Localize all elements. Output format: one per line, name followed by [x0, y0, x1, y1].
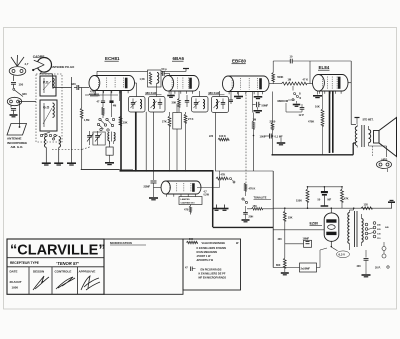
oscillator coil L2	[108, 132, 115, 145]
power transformer T4	[348, 208, 363, 250]
resistor 15K osc	[119, 117, 128, 126]
resistor 27K b	[184, 112, 194, 171]
title CLARVILLE	[7, 243, 106, 259]
svg-text:400: 400	[278, 238, 283, 241]
title headers	[10, 270, 96, 274]
tube 6BA6	[163, 56, 200, 94]
wire	[136, 91, 138, 97]
svg-text:CONTROLE: CONTROLE	[55, 270, 72, 274]
capacitor 330 grid	[71, 82, 89, 90]
svg-text:4,7: 4,7	[25, 62, 29, 66]
svg-text:28 AOUT: 28 AOUT	[10, 280, 22, 284]
switch grave-aigu	[292, 93, 302, 107]
capacitor 12 P	[286, 103, 304, 117]
svg-text:•POINT 1 W: •POINT 1 W	[197, 254, 212, 258]
switch tone	[230, 178, 236, 184]
capacitor grid osc	[109, 100, 116, 117]
svg-text:800: 800	[276, 263, 281, 267]
resistor 47K tone	[216, 173, 228, 180]
capacitor 50p	[161, 67, 170, 76]
wire grid top run	[97, 71, 186, 75]
chassis stub above 6BA6	[183, 69, 189, 72]
band switch contacts	[40, 132, 56, 137]
resistor 470K el84	[308, 91, 324, 155]
resistor 15K ps	[283, 208, 292, 258]
ground	[67, 163, 76, 165]
antenna socket J2	[7, 97, 21, 105]
label 220	[209, 135, 214, 138]
wire volume line	[253, 134, 255, 172]
svg-text:1M: 1M	[288, 78, 292, 82]
svg-text:500K: 500K	[277, 75, 283, 79]
frame aerial loop CADRE	[32, 58, 51, 73]
wire	[156, 83, 158, 97]
svg-text:MEDIUM: MEDIUM	[278, 99, 289, 103]
label MEDIUM	[278, 99, 296, 103]
output transformer T3	[355, 125, 370, 148]
oscillator feedback coil box	[140, 70, 162, 87]
label STD MET	[355, 118, 374, 125]
svg-text:480 KHZ: 480 KHZ	[208, 91, 220, 95]
wire	[10, 106, 12, 108]
tuning indicator tube	[154, 181, 202, 197]
title row recepteur	[7, 261, 104, 267]
wire	[71, 77, 73, 163]
legend line7	[199, 272, 226, 276]
capacitor 2x50MF	[285, 248, 327, 272]
svg-text:CADRAN 6V3: CADRAN 6V3	[181, 201, 196, 204]
resistor 2,2K	[102, 107, 105, 118]
wire B+ rail	[273, 207, 392, 209]
resistor 30K	[172, 91, 181, 112]
wire	[13, 75, 15, 81]
svg-text:1,5M: 1,5M	[84, 119, 90, 122]
potentiometer TONALITE	[242, 196, 271, 204]
capacitor 47	[97, 100, 106, 108]
wire heater run	[213, 226, 274, 228]
legend line8	[199, 276, 227, 280]
oscillator coil L1	[44, 135, 60, 147]
ground bus heavy	[120, 170, 214, 172]
resistor 150 tone	[247, 205, 273, 210]
voltage selector	[365, 222, 389, 240]
legend line3	[197, 250, 218, 254]
label 480 KHZ second IF	[208, 91, 225, 95]
wire	[145, 112, 147, 171]
coil GO box	[40, 100, 57, 131]
resistor 470	[85, 90, 118, 97]
wire plate EL84 to OPT	[348, 61, 356, 125]
label EZ80	[310, 222, 323, 226]
switch S1 antenna	[13, 88, 27, 96]
svg-text:MODIFICATION: MODIFICATION	[110, 241, 132, 245]
wire to EZ80 heater	[273, 229, 324, 231]
svg-text:400: 400	[357, 265, 362, 268]
svg-text:K EN MILLIERS DE PF: K EN MILLIERS DE PF	[199, 272, 226, 276]
ground bus thin	[81, 169, 133, 171]
label CADRE	[33, 55, 46, 59]
svg-text:MF: MF	[328, 199, 332, 202]
svg-text:1,5K: 1,5K	[140, 78, 145, 81]
svg-text:0,1 MF: 0,1 MF	[275, 135, 283, 139]
IF transformer T2 secondary	[212, 97, 229, 113]
chassis T right	[388, 200, 395, 208]
svg-text:12 P: 12 P	[299, 113, 305, 117]
svg-text:50MF: 50MF	[262, 104, 269, 108]
wire cadre to grid line	[40, 72, 72, 88]
wire	[219, 91, 221, 97]
svg-text:EZ80: EZ80	[310, 222, 319, 226]
wire detector dashed	[245, 92, 247, 191]
svg-text:47K: 47K	[344, 197, 349, 201]
svg-text:4M: 4M	[113, 105, 116, 108]
speaker plug HPS	[377, 161, 392, 173]
svg-text:ΔPOINTS 2 W: ΔPOINTS 2 W	[197, 258, 214, 262]
capacitor 20H	[242, 206, 254, 222]
svg-text:16MF: 16MF	[303, 236, 310, 240]
signature dessin	[33, 276, 49, 290]
resistor box padder	[106, 141, 113, 162]
ground EL84 cathode	[313, 91, 322, 98]
svg-text:1956: 1956	[12, 286, 19, 290]
ground	[42, 163, 51, 165]
shield box dashed	[36, 74, 62, 142]
potentiometer 1M volume	[282, 78, 307, 91]
rectifier tube EZ80	[324, 213, 339, 241]
wire heavy heater 6ba6	[135, 112, 137, 171]
grid capacitor 100	[229, 92, 233, 105]
svg-text:20H: 20H	[249, 215, 254, 219]
wire	[252, 92, 254, 113]
resistor 2200	[270, 92, 276, 155]
tube EBF80	[223, 59, 269, 95]
wire plate EBF80	[269, 83, 282, 85]
svg-text:RECEPTEUR TYPE: RECEPTEUR TYPE	[10, 261, 39, 265]
junction dots	[120, 135, 354, 248]
svg-text:470K: 470K	[308, 119, 314, 123]
title date	[10, 280, 22, 290]
svg-text:6BA6: 6BA6	[173, 56, 185, 61]
svg-text:LAMPES: LAMPES	[181, 198, 191, 201]
feedback capacitor 10	[273, 55, 351, 64]
svg-text:ANTENNE: ANTENNE	[7, 136, 22, 140]
tube ECH81	[89, 56, 135, 93]
wire vertical feed	[273, 171, 285, 268]
wire socket to box	[18, 101, 36, 103]
wire	[45, 148, 47, 163]
capacitor filter	[357, 250, 371, 277]
svg-text:AM. G.O.: AM. G.O.	[11, 145, 24, 149]
capacitor 0,1MF	[264, 134, 283, 139]
title block frame	[7, 239, 104, 294]
electrolytic box	[173, 104, 182, 171]
tube EL84	[313, 65, 348, 94]
wire heavy heater b	[332, 91, 334, 153]
gang dashed link	[52, 147, 91, 150]
wire grid left	[81, 88, 120, 170]
dial lamp box	[179, 197, 202, 205]
svg-text:470: 470	[90, 90, 95, 94]
label 480 KHZ first IF	[145, 91, 162, 95]
wire	[199, 91, 201, 97]
svg-text:47K: 47K	[221, 173, 226, 177]
signature approuve	[81, 276, 100, 290]
signature controle	[56, 277, 75, 289]
label 4,7 0,5W	[204, 191, 210, 197]
resistor 470 lamp	[184, 205, 192, 215]
resistor 100K	[218, 134, 229, 141]
svg-text:27 K: 27 K	[188, 117, 194, 121]
svg-text:10K: 10K	[315, 105, 320, 109]
svg-text:330: 330	[71, 82, 76, 86]
label HPS	[382, 158, 388, 162]
oscillator tuning box	[93, 132, 105, 145]
svg-text:“CLARVILLE”: “CLARVILLE”	[10, 243, 106, 259]
svg-text:DATE: DATE	[10, 270, 18, 274]
label secteur	[375, 266, 389, 270]
svg-text:100 K: 100 K	[219, 134, 226, 138]
svg-text:480 KHZ: 480 KHZ	[145, 91, 157, 95]
wire	[215, 113, 217, 171]
title columns	[29, 267, 78, 295]
wire	[153, 112, 155, 171]
svg-text:15K: 15K	[288, 216, 293, 220]
ground	[213, 205, 221, 211]
legend line1	[202, 241, 240, 245]
svg-text:20 P.: 20 P.	[375, 267, 381, 270]
svg-text:VALEUR ENONCEE: VALEUR ENONCEE	[202, 241, 226, 245]
svg-text:1M: 1M	[253, 118, 257, 122]
svg-text:500: 500	[189, 238, 194, 241]
wire bus af	[215, 170, 273, 172]
external antenna symbol	[11, 55, 29, 66]
resistor 47K ps	[341, 187, 349, 208]
svg-text:22MF: 22MF	[144, 185, 151, 189]
svg-text:‘TENOR 57’: ‘TENOR 57’	[56, 261, 80, 266]
label 10K	[315, 105, 320, 109]
wire	[58, 148, 60, 163]
legend line4	[197, 254, 212, 258]
svg-text:220: 220	[209, 135, 214, 138]
svg-text:150: 150	[19, 83, 24, 87]
resistor 1,5M	[80, 108, 89, 122]
ground 6BA6 cathode	[167, 91, 175, 97]
capacitor 50MF cathode	[253, 102, 269, 113]
svg-text:0,5W: 0,5W	[204, 195, 210, 197]
svg-text:2x50MF: 2x50MF	[301, 267, 311, 271]
wire EZ80 cathode	[331, 241, 337, 251]
IF transformer T1 secondary	[149, 97, 166, 113]
wire secondary to HPS	[369, 146, 387, 157]
label ANTENNE INCORPOREE AM. GO.	[7, 136, 27, 149]
svg-text:6,3 V: 6,3 V	[339, 253, 346, 257]
IF transformer T2 primary	[192, 97, 209, 113]
wire top filter link	[308, 186, 343, 188]
resistor 1500	[296, 187, 309, 208]
speaker HP	[374, 118, 397, 157]
legend line2	[197, 246, 227, 250]
resistor 1M diode load	[252, 113, 256, 134]
wire	[197, 171, 220, 188]
capacitor 10N	[185, 95, 189, 107]
legend box frame	[183, 239, 241, 290]
ground	[105, 163, 114, 165]
svg-text:15K: 15K	[123, 121, 128, 125]
legend line6	[201, 268, 222, 272]
legend resistor symbol	[187, 238, 198, 244]
antenna socket J1	[9, 67, 26, 76]
IF transformer T1 primary	[129, 97, 146, 113]
wire pins ECH81	[95, 91, 120, 102]
resistor 120	[361, 203, 372, 210]
ground	[54, 163, 63, 165]
svg-text:330: 330	[22, 92, 27, 96]
modification box	[104, 239, 183, 294]
coil PO box	[40, 76, 56, 96]
svg-text:EN PICOFARADS: EN PICOFARADS	[201, 268, 222, 272]
svg-text:470 K: 470 K	[249, 187, 256, 191]
resistor 27K a	[162, 112, 171, 171]
oscillator switch contacts	[97, 118, 114, 131]
ground	[221, 205, 229, 211]
svg-text:K EN MILLIERS D’OHMS: K EN MILLIERS D’OHMS	[197, 246, 227, 250]
svg-text:EL84: EL84	[319, 65, 330, 70]
svg-text:DESSIN: DESSIN	[33, 270, 44, 274]
svg-text:ANTENNE PO-GO: ANTENNE PO-GO	[51, 65, 75, 69]
wire plate ECH81 to IF1	[135, 83, 137, 91]
wire heavy bus to output transformer	[272, 143, 356, 155]
ground	[254, 92, 263, 99]
svg-text:APPROUVE: APPROUVE	[79, 270, 96, 274]
resistor 500K	[272, 61, 284, 84]
svg-text:M EN MEGOHMS: M EN MEGOHMS	[197, 250, 218, 254]
ground pin EBF80	[234, 92, 243, 99]
wire heavy heater a	[329, 91, 331, 153]
capacitor 22MF	[144, 171, 159, 200]
svg-text:1500: 1500	[296, 199, 302, 203]
capacitor antenna gnd	[11, 109, 16, 115]
svg-text:EBF80: EBF80	[232, 59, 247, 64]
wire EZ80 plate	[330, 208, 332, 213]
svg-text:47 K: 47 K	[303, 78, 309, 82]
capacitor 50 MF	[318, 187, 332, 206]
label ANTENNE PO-GO	[51, 65, 75, 69]
wire heavy heater ech81	[120, 91, 122, 171]
svg-text:50 p: 50 p	[162, 67, 168, 71]
ground	[10, 115, 18, 117]
svg-text:ECH81: ECH81	[105, 56, 120, 61]
svg-text:120: 120	[364, 203, 369, 207]
label 6,3V	[337, 251, 350, 258]
svg-text:MF EN MICROFARADS: MF EN MICROFARADS	[199, 276, 227, 280]
resistor 470K tone	[244, 183, 255, 196]
resistor 800	[276, 258, 289, 275]
ground	[277, 138, 286, 145]
wire heavy down	[212, 171, 214, 227]
capacitor 150	[11, 83, 24, 89]
legend line5	[197, 258, 214, 262]
svg-text:30K: 30K	[172, 101, 177, 105]
variable capacitor CV2	[95, 131, 102, 145]
capacitor 16MF	[278, 236, 312, 247]
variable capacitor CV1	[87, 131, 94, 145]
resistor 47K af	[303, 61, 313, 84]
legend cap symbol	[185, 267, 196, 272]
built-in antenna plate	[7, 102, 27, 136]
svg-text:470: 470	[184, 208, 189, 212]
svg-text:TONALITE: TONALITE	[254, 196, 267, 200]
fuse	[382, 242, 386, 258]
svg-text:STD MET.: STD MET.	[363, 119, 374, 122]
svg-text:27K: 27K	[162, 120, 167, 124]
label 1000	[260, 134, 266, 138]
